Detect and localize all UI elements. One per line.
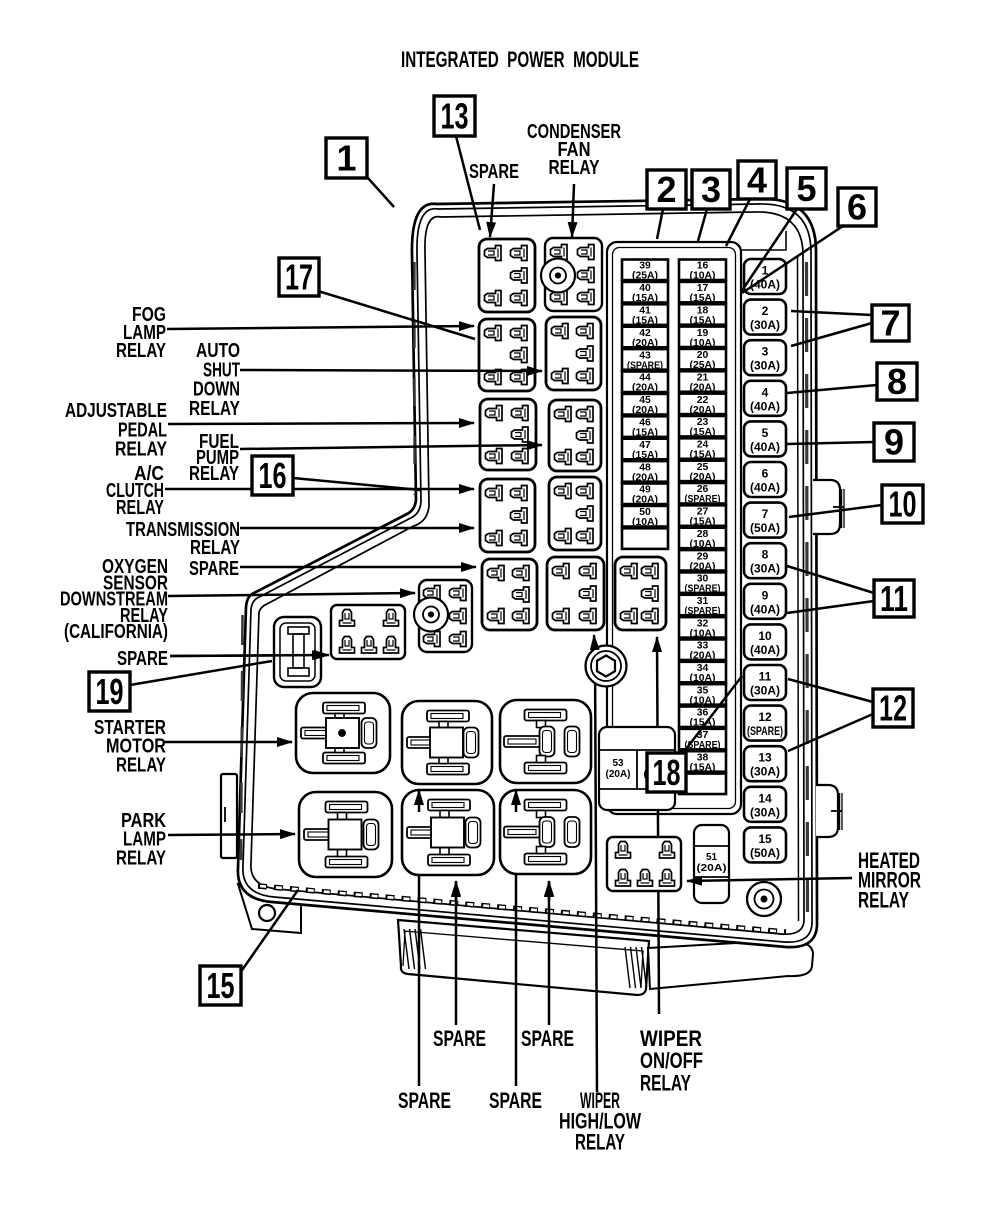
arrow fuel pump relay (240, 445, 542, 449)
svg-text:18: 18 (653, 752, 681, 793)
fuse 41 (15A) (622, 304, 668, 326)
svg-text:3: 3 (701, 169, 721, 210)
svg-text:RELAY: RELAY (116, 339, 166, 362)
svg-text:RELAY: RELAY (116, 496, 164, 519)
fuse col2 empty cell (679, 774, 726, 795)
arrow adjustable pedal relay (168, 423, 474, 424)
fuse 36 (15A) (679, 707, 726, 729)
spare relay cavity row E (482, 559, 537, 630)
svg-text:RELAY: RELAY (575, 1129, 625, 1154)
svg-text:SPARE: SPARE (469, 160, 519, 183)
svg-text:(10A): (10A) (690, 338, 716, 349)
callout 7 (872, 303, 909, 344)
svg-text:SPARE: SPARE (398, 1088, 451, 1113)
condenser fan relay (541, 238, 602, 311)
leader line wiper high/low relay (595, 655, 597, 1092)
svg-text:(SPARE): (SPARE) (685, 606, 721, 617)
callout 2 (647, 169, 686, 210)
label wiper on/off relay (640, 1026, 703, 1095)
svg-text:5: 5 (796, 168, 816, 209)
svg-text:(10A): (10A) (690, 628, 716, 639)
svg-text:19: 19 (96, 671, 124, 712)
label spare bottom r1c1 (433, 1026, 486, 1051)
leader line spare row1-1 to relay (455, 882, 458, 1025)
svg-text:(30A): (30A) (750, 318, 780, 332)
fog lamp relay cavity (479, 319, 535, 391)
maxi fuse 9 (40A) (744, 584, 786, 619)
callout 12 (873, 688, 913, 729)
spare relay position r2c3 (500, 790, 591, 874)
svg-text:SPARE: SPARE (433, 1026, 486, 1051)
svg-text:(20A): (20A) (697, 863, 727, 874)
svg-text:(30A): (30A) (750, 562, 780, 576)
relay cavity spare (13) (479, 239, 535, 312)
leader 5 (741, 209, 797, 292)
fuse 40 (15A) (622, 282, 668, 304)
callout 1 (326, 138, 367, 179)
maxi fuse 10 (40A) (744, 624, 786, 659)
fuse 25 (20A) (679, 461, 726, 483)
svg-text:(15A): (15A) (632, 428, 658, 439)
fuse block 51 (694, 825, 729, 903)
right connector tab upper (813, 480, 840, 534)
callout 11 (874, 578, 914, 619)
svg-text:SPARE: SPARE (521, 1026, 574, 1051)
spare relay position r2c2 (402, 790, 494, 875)
leader 9 (787, 442, 874, 444)
callout 3 (692, 169, 730, 210)
label oxygen sensor downstream relay (60, 555, 168, 643)
leader 18 (683, 676, 742, 753)
svg-text:(15A): (15A) (690, 762, 716, 773)
svg-text:5: 5 (762, 426, 769, 440)
svg-text:RELAY: RELAY (115, 438, 167, 461)
leader line spare row2-1 to relay (418, 792, 421, 1086)
svg-text:(15A): (15A) (690, 517, 716, 528)
mounting bolt center (586, 646, 627, 687)
svg-text:(10A): (10A) (632, 517, 658, 528)
svg-text:RELAY: RELAY (190, 536, 240, 559)
maxi fuse 12 (SPARE) (744, 706, 786, 741)
fuse 38 (15A) (679, 751, 726, 773)
leader line wiper on/off relay (657, 637, 659, 1014)
callout 8 (877, 361, 917, 402)
fuse 27 (15A) (679, 505, 726, 527)
fuse 29 (20A) (679, 550, 726, 572)
arrow transmission relay (240, 527, 474, 530)
fuse 22 (20A) (679, 394, 726, 416)
fuse 23 (15A) (679, 416, 726, 438)
fuse 35 (10A) (679, 684, 726, 706)
svg-text:(30A): (30A) (750, 684, 780, 698)
svg-text:2: 2 (656, 169, 676, 210)
callout 18 (647, 752, 686, 793)
svg-text:12: 12 (758, 710, 772, 724)
svg-text:(20A): (20A) (632, 338, 658, 349)
fuse 16 (10A) (679, 260, 726, 282)
arrow starter motor relay (165, 741, 292, 744)
fuse 18 (15A) (679, 304, 726, 326)
label spare bottom r2c2 (489, 1088, 542, 1113)
mounting bolt bottom-right (747, 882, 781, 916)
label spare bottom r1c2 (521, 1026, 574, 1051)
label adjustable pedal relay (65, 399, 167, 461)
fuse 47 (15A) (622, 439, 668, 461)
svg-text:11: 11 (759, 670, 772, 684)
fuse 49 (20A) (622, 484, 668, 506)
module casing middle outline (243, 204, 812, 942)
callout 17 (279, 257, 319, 298)
fuse 37 (SPARE) (679, 729, 726, 751)
maxi fuse 15 (50A) (744, 827, 786, 862)
fuse col1 empty cell (622, 528, 668, 549)
svg-text:14: 14 (758, 791, 772, 805)
maxi fuse 6 (40A) (744, 462, 786, 497)
leader 6 (742, 226, 843, 293)
arrow spare top (490, 184, 494, 237)
svg-text:7: 7 (762, 507, 769, 521)
spare socket (19) (274, 617, 321, 687)
callout 6 (838, 187, 876, 228)
arrowhead spare row2-1 (418, 790, 421, 812)
bottom rim hatch band (258, 886, 786, 932)
svg-text:53: 53 (612, 758, 624, 769)
svg-text:15: 15 (207, 965, 235, 1006)
leader 1 (367, 177, 394, 207)
svg-text:(20A): (20A) (690, 405, 716, 416)
fuse 48 (20A) (622, 461, 668, 483)
svg-text:(SPARE): (SPARE) (685, 584, 721, 595)
svg-text:SPARE: SPARE (189, 557, 239, 580)
label spare lower (117, 647, 168, 670)
a/c clutch relay cavity (480, 479, 535, 552)
svg-text:12: 12 (879, 688, 907, 729)
leader 12b (788, 714, 873, 751)
fuse 24 (15A) (679, 438, 726, 460)
label a/c clutch relay (106, 462, 164, 519)
maxi fuse 14 (30A) (744, 787, 786, 822)
leader 10 (789, 505, 882, 517)
arrowhead spare row1-2 (548, 881, 551, 900)
svg-text:(20A): (20A) (690, 472, 716, 483)
svg-text:(20A): (20A) (605, 769, 630, 780)
svg-text:(SPARE): (SPARE) (685, 494, 721, 505)
svg-text:(30A): (30A) (750, 805, 780, 819)
leader 17 (318, 291, 475, 339)
right connector tab lower (816, 785, 838, 837)
callout 15 (200, 965, 241, 1006)
fuse 30 (SPARE) (679, 572, 726, 594)
svg-text:RELAY: RELAY (189, 397, 240, 420)
svg-text:17: 17 (285, 257, 313, 298)
casing step above maxi fuse 1 (741, 231, 786, 250)
bottom tray left hatch (404, 929, 409, 969)
callout 9 (874, 422, 914, 463)
svg-text:2: 2 (762, 304, 769, 318)
callout 5 (787, 168, 826, 209)
fuse 50 (10A) (622, 506, 668, 528)
fuse 32 (10A) (679, 617, 726, 639)
svg-text:RELAY: RELAY (189, 462, 239, 485)
svg-text:(50A): (50A) (750, 521, 780, 535)
svg-text:RELAY: RELAY (858, 887, 909, 912)
leader 8 (787, 385, 877, 393)
svg-text:(25A): (25A) (690, 360, 716, 371)
svg-text:(10A): (10A) (690, 695, 716, 706)
label transmission relay (126, 518, 240, 559)
fuse 46 (15A) (622, 416, 668, 438)
spare relay position r1c2 (402, 701, 492, 784)
svg-text:51: 51 (706, 852, 718, 863)
maxi fuse 8 (30A) (744, 543, 786, 578)
fuse 28 (10A) (679, 528, 726, 550)
svg-text:11: 11 (880, 578, 908, 619)
fuse 26 (SPARE) (679, 483, 726, 505)
bottom tray (398, 920, 649, 995)
svg-text:(15A): (15A) (690, 427, 716, 438)
svg-text:(10A): (10A) (690, 271, 716, 282)
fuse 42 (20A) (622, 327, 668, 349)
callout 19 (89, 671, 130, 712)
svg-text:(20A): (20A) (690, 651, 716, 662)
svg-text:(SPARE): (SPARE) (747, 724, 783, 738)
svg-text:(20A): (20A) (632, 472, 658, 483)
fuse panel border (607, 242, 741, 814)
left wall shading streak (241, 615, 243, 860)
maxi fuse 1 (40A) (744, 259, 786, 294)
leader line spare lower (170, 655, 322, 656)
label wiper high/low relay (559, 1088, 641, 1154)
svg-text:(15A): (15A) (632, 450, 658, 461)
svg-text:(20A): (20A) (632, 495, 658, 506)
maxi fuse 11 (30A) (744, 665, 786, 700)
fuse 33 (20A) (679, 639, 726, 661)
heated mirror relay (607, 837, 681, 891)
svg-text:SPARE: SPARE (489, 1088, 542, 1113)
svg-text:(40A): (40A) (750, 440, 780, 454)
left connector tab (221, 774, 237, 858)
leader 4 (726, 199, 750, 246)
svg-text:(15A): (15A) (690, 315, 716, 326)
right wall shading streaks (807, 262, 808, 916)
label heated mirror relay (858, 848, 921, 912)
mounting hole bottom-left (259, 905, 275, 921)
label spare top (469, 160, 519, 183)
label spare mid (189, 557, 239, 580)
svg-text:(20A): (20A) (690, 382, 716, 393)
svg-text:6: 6 (762, 467, 769, 481)
svg-text:(40A): (40A) (750, 481, 780, 495)
svg-text:4: 4 (747, 160, 767, 201)
svg-text:(15A): (15A) (632, 293, 658, 304)
svg-text:RELAY: RELAY (116, 846, 166, 869)
arrowhead spare lower (322, 654, 329, 657)
leader 19 (130, 661, 272, 685)
wiper high/low relay cavity (547, 557, 604, 630)
transmission relay cavity (549, 477, 601, 550)
leader 3 (698, 209, 707, 241)
oxygen sensor downstream relay (california) (414, 580, 472, 652)
label spare bottom r2c1 (398, 1088, 451, 1113)
svg-text:(50A): (50A) (750, 846, 780, 860)
bottom tray right hatch (625, 947, 630, 988)
park lamp relay (299, 792, 392, 877)
svg-text:8: 8 (762, 548, 769, 562)
svg-text:13: 13 (441, 96, 469, 137)
svg-text:(15A): (15A) (632, 316, 658, 327)
fuse block 52/53 (599, 727, 675, 810)
bottom tray inner line (403, 931, 643, 987)
leader 7a (791, 311, 872, 315)
maxi fuse 13 (30A) (744, 746, 786, 781)
callout 10 (882, 484, 923, 525)
leader 16 (293, 478, 420, 490)
spare relay position r1c3 (500, 700, 591, 783)
leader 13 (456, 136, 480, 230)
svg-text:(30A): (30A) (750, 765, 780, 779)
module casing inner outline (251, 212, 804, 934)
arrow downstream relay (168, 593, 415, 596)
leader line spare row2-2 to relay (515, 792, 518, 1086)
starter motor relay (296, 693, 390, 773)
fuse 45 (20A) (622, 394, 668, 416)
svg-text:(SPARE): (SPARE) (627, 360, 663, 371)
fuse 39 (25A) (622, 260, 668, 282)
arrow a/c clutch relay (165, 488, 474, 491)
svg-text:(20A): (20A) (632, 383, 658, 394)
leader line spare row1-2 to relay (548, 882, 551, 1025)
maxi fuse 3 (30A) (744, 340, 786, 375)
spare micro relay (331, 605, 405, 659)
svg-text:RELAY: RELAY (640, 1070, 691, 1095)
leader 15 (240, 890, 298, 973)
label fog lamp relay (116, 303, 166, 362)
fuse 19 (10A) (679, 327, 726, 349)
auto shut down relay cavity (546, 317, 601, 390)
callout 4 (738, 160, 776, 201)
svg-text:RELAY: RELAY (549, 156, 600, 179)
svg-text:(40A): (40A) (750, 399, 780, 413)
svg-text:10: 10 (889, 484, 917, 525)
maxi fuse 5 (40A) (744, 421, 786, 456)
fuel pump relay cavity (549, 400, 601, 471)
label auto shut down relay (189, 339, 240, 420)
fuse 20 (25A) (679, 349, 726, 371)
fuse 21 (20A) (679, 371, 726, 393)
svg-text:10: 10 (758, 629, 772, 643)
fuse 31 (SPARE) (679, 595, 726, 617)
maxi fuse 7 (50A) (744, 503, 786, 538)
svg-text:9: 9 (762, 588, 769, 602)
svg-text:4: 4 (762, 385, 769, 399)
wiper on/off relay cavity (615, 557, 666, 630)
svg-text:9: 9 (884, 422, 904, 463)
right inner wall line (798, 256, 799, 921)
svg-text:13: 13 (758, 751, 772, 765)
svg-text:(40A): (40A) (750, 643, 780, 657)
svg-text:15: 15 (758, 832, 772, 846)
maxi fuse 4 (40A) (744, 381, 786, 416)
upper-left wall shading streak (413, 262, 415, 495)
fuse 17 (15A) (679, 282, 726, 304)
adjustable pedal relay cavity (480, 399, 536, 470)
fuse 44 (20A) (622, 372, 668, 394)
svg-text:16: 16 (259, 455, 287, 496)
svg-text:(10A): (10A) (690, 539, 716, 550)
callout 16 (252, 455, 293, 496)
svg-text:8: 8 (887, 361, 907, 402)
svg-text:(30A): (30A) (750, 359, 780, 373)
fuse 34 (10A) (679, 662, 726, 684)
svg-text:(20A): (20A) (632, 405, 658, 416)
label starter motor relay (94, 716, 166, 776)
label park lamp relay (116, 809, 166, 869)
bottom-left mounting foot (238, 884, 301, 933)
svg-text:7: 7 (880, 303, 900, 344)
label condenser fan relay (527, 120, 621, 179)
svg-text:3: 3 (762, 345, 769, 359)
leader 2 (657, 209, 663, 239)
svg-text:(15A): (15A) (690, 293, 716, 304)
svg-text:6: 6 (847, 187, 867, 228)
svg-text:(10A): (10A) (690, 673, 716, 684)
svg-text:(40A): (40A) (750, 602, 780, 616)
arrow condenser fan relay (572, 184, 574, 237)
svg-text:(20A): (20A) (690, 561, 716, 572)
maxi fuse 2 (30A) (744, 300, 786, 335)
arrow spare mid (240, 566, 476, 569)
leader 11a (787, 566, 874, 593)
svg-text:INTEGRATED POWER MODULE: INTEGRATED POWER MODULE (401, 47, 639, 72)
arrow auto shut down relay (240, 370, 542, 371)
arrow park lamp relay (168, 834, 295, 835)
svg-text:1: 1 (336, 138, 356, 179)
leader 7b (791, 323, 872, 346)
label fuel pump relay (189, 430, 239, 485)
arrowhead spare row2-2 (515, 790, 518, 812)
svg-text:SPARE: SPARE (117, 647, 168, 670)
svg-text:(15A): (15A) (690, 450, 716, 461)
arrow heated mirror relay (687, 878, 852, 881)
leader 12a (788, 679, 873, 702)
fuse 43 (SPARE) (622, 349, 668, 371)
arrowhead wiper high/low relay (593, 635, 596, 648)
module casing outer outline (238, 199, 817, 947)
arrowhead spare row1-1 (455, 881, 458, 900)
svg-text:(25A): (25A) (632, 271, 658, 282)
bottom skirt right (648, 940, 813, 989)
arrow fog lamp relay (167, 326, 474, 329)
leader 11b (787, 601, 874, 613)
callout 13 (434, 96, 475, 137)
svg-text:RELAY: RELAY (116, 753, 166, 776)
arrow spare lower (170, 655, 327, 656)
svg-text:(CALIFORNIA): (CALIFORNIA) (64, 620, 168, 643)
